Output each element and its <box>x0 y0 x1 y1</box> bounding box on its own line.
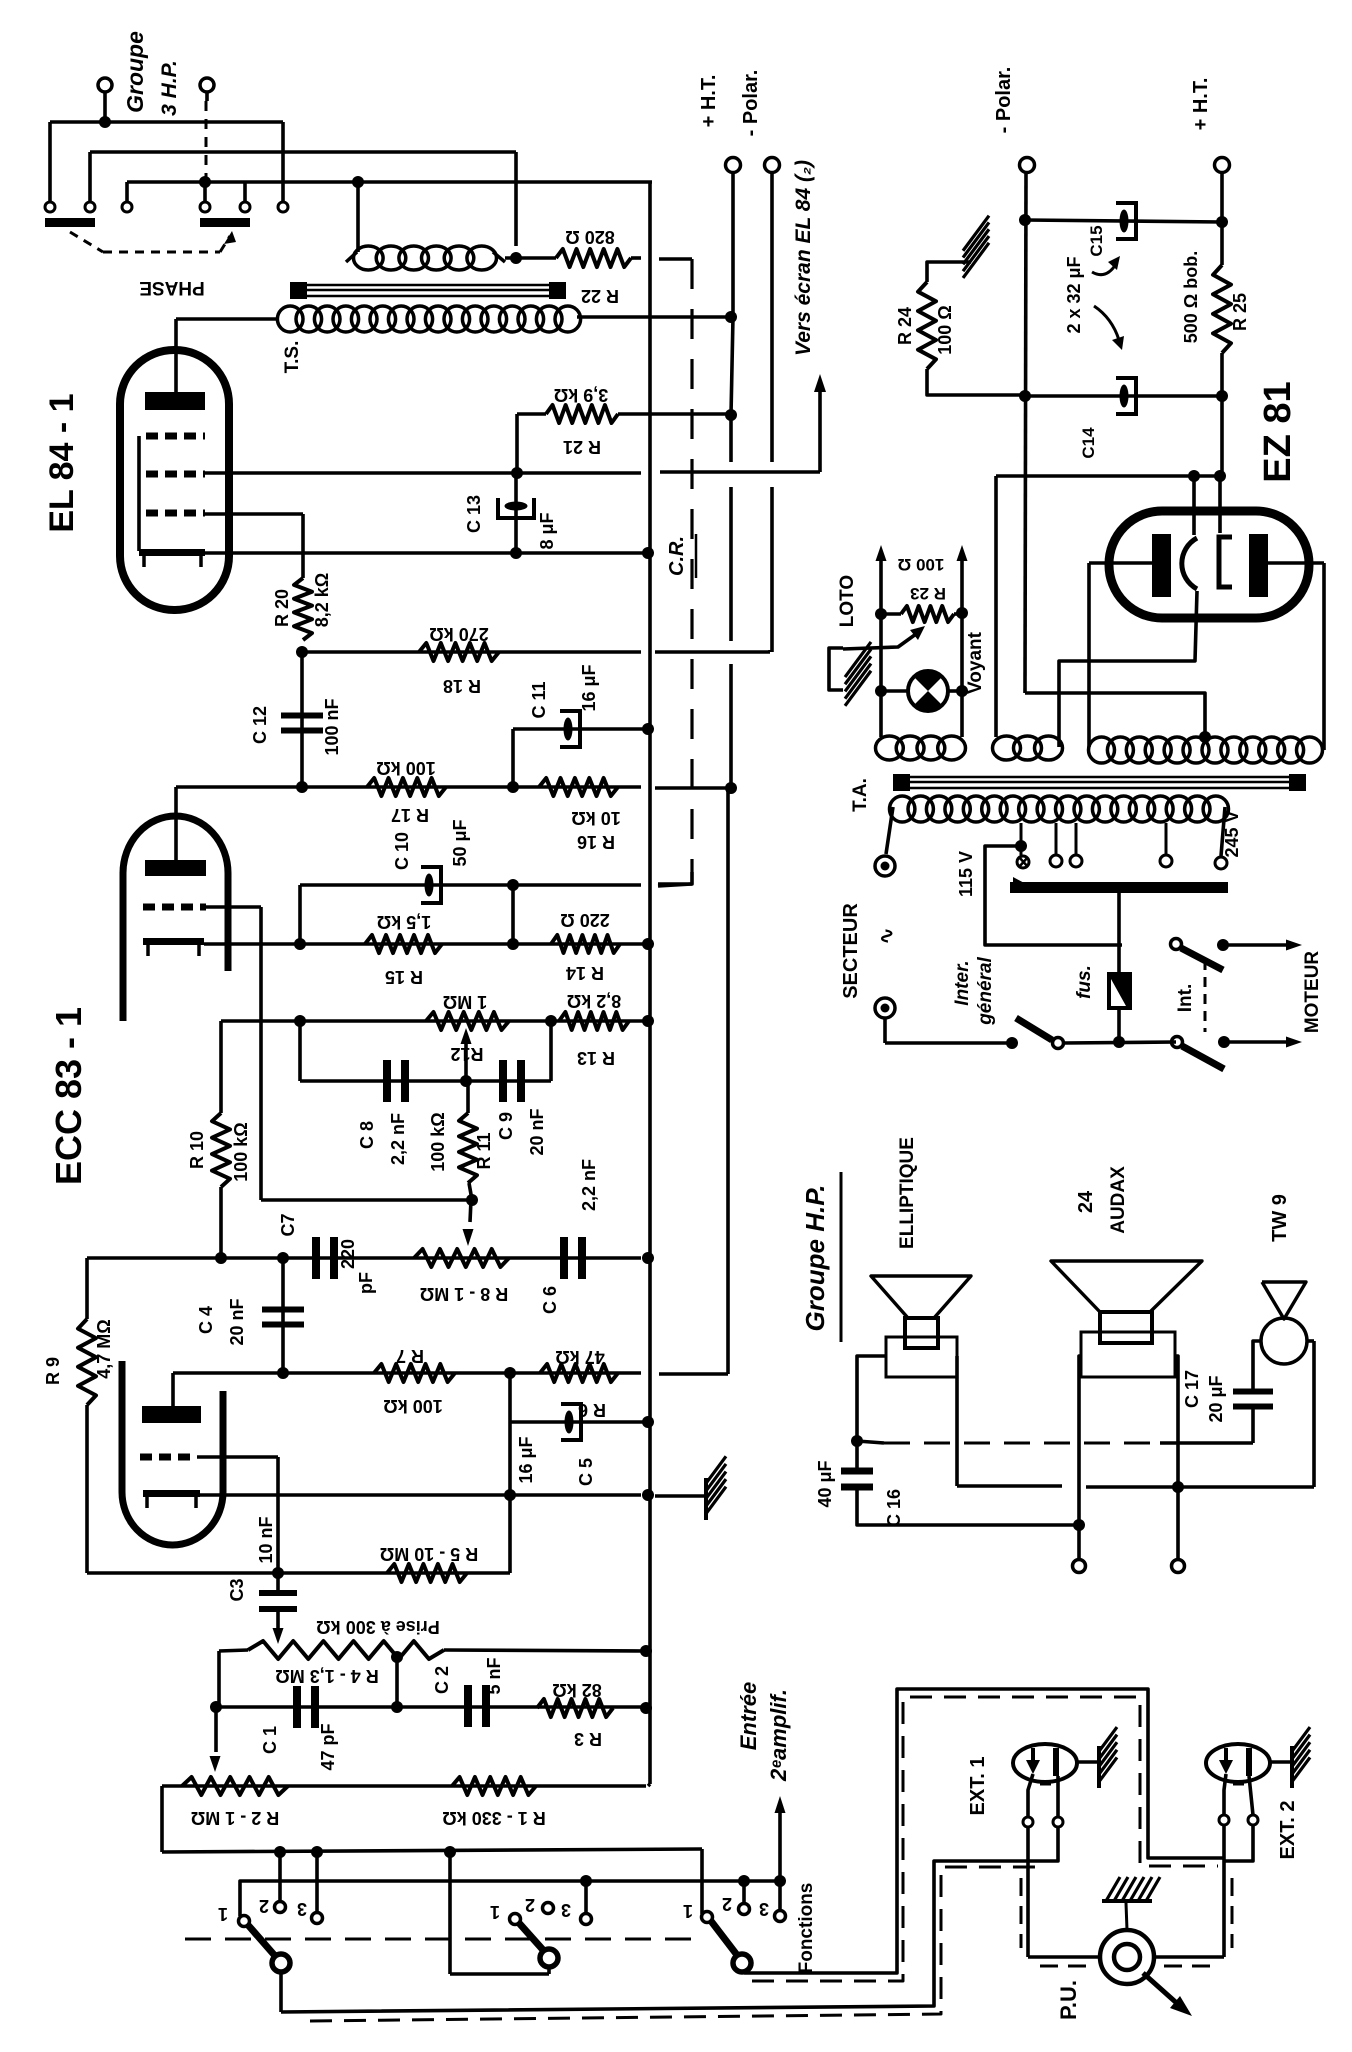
svg-text:100 kΩ: 100 kΩ <box>231 1122 251 1181</box>
tube EZ81 heater <box>1182 538 1197 589</box>
svg-text:100 nF: 100 nF <box>322 698 342 755</box>
svg-text:+ H.T.: + H.T. <box>698 75 720 128</box>
svg-text:général: général <box>975 956 996 1025</box>
node selector bar <box>1010 877 1228 893</box>
svg-text:LOTO: LOTO <box>837 575 858 627</box>
wire cable B <box>281 1861 1040 2012</box>
wire HT vertical <box>728 317 733 792</box>
svg-text:16 μF: 16 μF <box>516 1436 536 1483</box>
wire lever2 out <box>450 1966 549 1974</box>
switch Inter general <box>1016 1018 1064 1049</box>
wire heater line <box>996 476 1220 737</box>
label 2,2 nF C6 <box>579 1159 599 1211</box>
svg-text:220 Ω: 220 Ω <box>560 910 609 930</box>
capacitor C12 <box>281 652 323 787</box>
tube EZ81 cathode <box>1219 537 1232 587</box>
label 8,2 kohm R13 <box>567 991 621 1011</box>
svg-text:R 5 - 10 MΩ: R 5 - 10 MΩ <box>380 1544 478 1564</box>
wire C8 C9 line <box>300 1075 551 1087</box>
label R 5 - 10 Mohm <box>380 1544 478 1564</box>
inductor T.A. heater winding 2 <box>993 736 1063 760</box>
label 2,2 nF C8 <box>388 1113 408 1165</box>
node arrow c15 <box>1092 256 1120 275</box>
label C 13 <box>464 495 484 533</box>
node -Polar right terminal <box>1020 158 1035 694</box>
svg-text:Entrée: Entrée <box>736 1682 761 1750</box>
svg-text:20 nF: 20 nF <box>527 1108 547 1155</box>
resistor R14 <box>551 935 620 953</box>
svg-text:8 μF: 8 μF <box>537 512 557 549</box>
svg-text:R 17: R 17 <box>391 805 429 825</box>
label MOTEUR <box>1302 951 1323 1034</box>
label R12 <box>450 1044 483 1064</box>
label ELLIPTIQUE <box>897 1137 918 1249</box>
speaker ELLIPTIQUE <box>871 1276 971 1377</box>
capacitor C5 <box>510 1373 654 1573</box>
label EXT. 2 <box>1277 1801 1299 1860</box>
capacitor C7 <box>312 1237 338 1279</box>
label C 17 <box>1182 1370 1202 1408</box>
wire R9 top <box>85 1258 89 1319</box>
node g2 contacts <box>510 1903 592 1925</box>
svg-text:2 x 32 μF: 2 x 32 μF <box>1064 256 1084 333</box>
resistor R18 <box>419 643 499 661</box>
wire audax left <box>1073 1356 1086 1573</box>
wire dashed PHASE link <box>70 231 236 252</box>
label LOTO <box>837 575 858 627</box>
wire elliptique left <box>851 1356 886 1470</box>
label C15 <box>1087 225 1106 256</box>
wire R12 wiper <box>461 1028 472 1081</box>
node Vers ecran arrow <box>814 374 826 472</box>
label EL 84 - 1 <box>43 393 81 532</box>
svg-text:R 14: R 14 <box>566 963 604 983</box>
svg-text:5 nF: 5 nF <box>484 1657 504 1694</box>
label C 1 <box>260 1726 280 1754</box>
label digits g3 <box>683 1894 769 1921</box>
capacitor C15 <box>1116 203 1136 239</box>
svg-text:ELLIPTIQUE: ELLIPTIQUE <box>897 1137 918 1249</box>
svg-text:C7: C7 <box>278 1213 298 1236</box>
capacitor C9 <box>499 1060 525 1102</box>
svg-text:R 24: R 24 <box>895 307 915 345</box>
svg-text:1: 1 <box>218 1904 228 1924</box>
connector P.U. <box>1100 1930 1154 1984</box>
svg-text:Inter.: Inter. <box>952 960 973 1005</box>
capacitor C1 <box>293 1686 319 1728</box>
resistor R15 <box>365 935 442 953</box>
svg-text:Prise à 300 kΩ: Prise à 300 kΩ <box>316 1617 440 1637</box>
label 1,5 kohm <box>377 912 431 932</box>
label C7 <box>278 1213 298 1236</box>
label Fonctions <box>796 1883 817 1974</box>
svg-text:Fonctions: Fonctions <box>796 1883 817 1974</box>
label 115 V <box>956 851 976 897</box>
svg-text:10 nF: 10 nF <box>256 1516 276 1563</box>
lamp Voyant <box>881 671 962 711</box>
resistor R21 <box>546 405 618 423</box>
wire EXT1 ring <box>1040 1776 1063 1861</box>
resistor R13 <box>559 1012 629 1030</box>
svg-text:pF: pF <box>356 1272 376 1294</box>
wire grid line right <box>655 650 770 654</box>
svg-text:R 15: R 15 <box>385 967 423 987</box>
svg-text:2,2 nF: 2,2 nF <box>579 1159 599 1211</box>
wire secondary riser <box>356 182 360 252</box>
resistor R24 <box>918 262 1020 395</box>
wire plate line <box>176 781 737 794</box>
label 1 Mohm <box>443 992 487 1012</box>
wire R1 R2 line <box>162 1784 646 1788</box>
tube ECC83b plate <box>142 1373 201 1423</box>
wire C15 line <box>1019 214 1228 228</box>
wire EXT2 tip <box>1219 1774 1229 1957</box>
wire cathode line <box>204 938 654 950</box>
svg-text:R 8 - 1 MΩ: R 8 - 1 MΩ <box>420 1284 508 1304</box>
label 16 uF <box>579 664 599 711</box>
wire heater arrow 2 <box>956 545 968 737</box>
svg-text:R 9: R 9 <box>43 1357 63 1385</box>
svg-text:47 kΩ: 47 kΩ <box>555 1347 604 1367</box>
svg-text:2: 2 <box>722 1894 732 1914</box>
speaker TW9 <box>1261 1282 1307 1364</box>
svg-text:T.A.: T.A. <box>850 778 871 812</box>
svg-text:Groupe H.P.: Groupe H.P. <box>800 1185 830 1332</box>
wire stem g3t2 <box>742 1881 746 1903</box>
wire PU shield dashes <box>1021 1878 1232 1966</box>
wire R25 bottom <box>1216 353 1228 476</box>
label 220 ohm <box>560 910 609 930</box>
svg-text:SECTEUR: SECTEUR <box>840 903 862 999</box>
wire C.R. dashed feedback <box>658 259 692 884</box>
svg-text:2: 2 <box>525 1895 535 1915</box>
svg-text:Vers écran EL 84 (₂): Vers écran EL 84 (₂) <box>792 160 815 356</box>
svg-text:100 kΩ: 100 kΩ <box>376 758 435 778</box>
label 100 kohm R10 <box>231 1122 251 1181</box>
wire gang dashed <box>185 1938 705 1941</box>
potentiometer R8 <box>414 1249 509 1267</box>
label R 10 <box>187 1131 207 1169</box>
label C.R. <box>666 534 696 578</box>
wire plate line 2 <box>173 1367 641 1379</box>
resistor R11 <box>459 1081 477 1200</box>
label C 2 <box>432 1666 452 1694</box>
resistor R1 <box>452 1777 536 1795</box>
wire 115V line <box>985 846 1122 945</box>
wire screen line <box>205 472 820 473</box>
label R 1 - 330 kohm <box>442 1808 545 1828</box>
svg-text:2,2 nF: 2,2 nF <box>388 1113 408 1165</box>
label Groupe H.P. <box>800 1172 841 1342</box>
tube ECC83a plate <box>145 787 206 876</box>
label T.A. <box>850 778 871 812</box>
potentiometer R2 <box>182 1777 288 1795</box>
label R 4 - 1,3 Mohm <box>275 1666 378 1686</box>
svg-text:R 3: R 3 <box>574 1729 602 1749</box>
svg-text:- Polar.: - Polar. <box>993 67 1015 134</box>
ground <box>706 1456 726 1520</box>
node taps <box>1050 823 1172 867</box>
label Prise a 300 kohm <box>316 1617 440 1637</box>
inductor T.S. secondary <box>346 246 505 270</box>
inductor T.A. HV winding <box>1089 737 1323 763</box>
svg-text:500 Ω bob.: 500 Ω bob. <box>1181 251 1201 343</box>
svg-text:100 kΩ: 100 kΩ <box>383 1396 442 1416</box>
wire switch bus 2 <box>240 1875 786 1916</box>
wire R11 wiper <box>463 1200 474 1246</box>
wire C17 to crossover <box>1251 1408 1255 1443</box>
core T.S. <box>290 282 566 299</box>
wire plate to primary <box>176 319 277 392</box>
capacitor C2 <box>464 1685 490 1727</box>
svg-text:PHASE: PHASE <box>139 277 204 298</box>
wire Int gang dashed <box>1204 960 1207 1032</box>
label R 2 - 1 Mohm <box>191 1808 279 1828</box>
label C3 <box>227 1578 247 1601</box>
node +H.T. right terminal <box>1215 158 1230 266</box>
wire cathode line 2 <box>200 1489 654 1501</box>
resistor R6 <box>540 1364 618 1382</box>
node SECTEUR bottom <box>875 998 895 1018</box>
resistor R3 <box>537 1699 613 1717</box>
svg-text:100 kΩ: 100 kΩ <box>428 1112 448 1171</box>
switch lever 1 <box>248 1925 290 1972</box>
label 47 pF <box>318 1723 338 1770</box>
svg-text:16 μF: 16 μF <box>579 664 599 711</box>
tube ECC83a cathode <box>143 938 204 956</box>
label 820 ohm <box>565 227 614 247</box>
label R 14 <box>566 963 604 983</box>
svg-text:P.U.: P.U. <box>1056 1980 1081 2020</box>
inductor T.S. primary <box>277 306 580 332</box>
wire switch bus 1 <box>162 1786 702 1914</box>
svg-text:100 Ω: 100 Ω <box>935 305 955 354</box>
ground LOTO <box>845 642 871 706</box>
label C 16 <box>884 1489 904 1527</box>
node HV center tap <box>1025 693 1211 743</box>
wire grid lower <box>197 1457 284 1579</box>
wire R9 bottom <box>85 1405 89 1573</box>
svg-text:C.R.: C.R. <box>666 536 688 576</box>
svg-text:R 18: R 18 <box>443 676 481 696</box>
node +H.T. terminal <box>726 158 741 318</box>
svg-text:EXT. 1: EXT. 1 <box>967 1757 989 1816</box>
capacitor C3 <box>259 1573 297 1612</box>
wire C1 line <box>210 1701 652 1714</box>
wire cathode to ground <box>655 1494 706 1498</box>
label C14 <box>1079 427 1098 459</box>
wire 115 line 2 <box>1120 943 1124 947</box>
capacitor C6 <box>560 1237 586 1279</box>
potentiometer R4 <box>248 1641 444 1659</box>
wire rail to R1 <box>648 1784 650 1786</box>
wire fuse bottom <box>1113 1008 1125 1048</box>
wire primary right <box>1215 807 1227 869</box>
svg-text:C 2: C 2 <box>432 1666 452 1694</box>
svg-text:fus.: fus. <box>1074 965 1095 999</box>
label 10 kohm <box>571 808 620 828</box>
wire speaker bus C <box>127 180 652 184</box>
wire dashed polarity <box>205 101 208 178</box>
switch lever 2 <box>519 1923 558 1967</box>
switch Int lower <box>1172 1037 1225 1070</box>
label R 24 <box>895 307 915 345</box>
wire R21 line <box>517 412 546 416</box>
wire R2 wiper <box>210 1707 221 1772</box>
wire tone line <box>221 1015 654 1027</box>
tube ECC83a grid <box>143 904 206 911</box>
label R 7 <box>396 1346 424 1366</box>
label 20 uF C17 <box>1206 1375 1226 1422</box>
svg-text:3 H.P.: 3 H.P. <box>158 60 181 116</box>
resistor R23 <box>881 606 962 622</box>
tube EL84 grid3 <box>146 433 205 440</box>
tube EL84 grid1 <box>146 510 205 517</box>
label R 20 <box>272 589 292 627</box>
wire terminal stems <box>50 122 283 202</box>
svg-text:R 22: R 22 <box>581 286 619 306</box>
label 20 nF C4 <box>227 1298 247 1345</box>
label Groupe 3 H.P. <box>122 31 181 116</box>
label PHASE <box>139 277 204 298</box>
wire audax right <box>1172 1356 1185 1573</box>
label 3,9 kohm <box>554 385 608 405</box>
label Int. <box>1175 984 1196 1013</box>
wire R4 left <box>219 1650 248 1707</box>
label 10 nF <box>256 1516 276 1563</box>
label 40 uF <box>815 1460 835 1507</box>
label R 11 <box>474 1132 494 1169</box>
label C 5 <box>576 1458 596 1486</box>
label +H.T. <box>698 75 720 128</box>
svg-text:T.S.: T.S. <box>282 341 303 374</box>
label R8 - 1 Mohm <box>420 1284 508 1304</box>
svg-text:82 kΩ: 82 kΩ <box>552 1680 601 1700</box>
label 2e amplif <box>766 1689 791 1782</box>
switch lever 3 <box>711 1921 751 1972</box>
svg-text:8,2 kΩ: 8,2 kΩ <box>567 991 621 1011</box>
tube EL84 grid2 <box>146 471 205 478</box>
label digits g2 <box>490 1895 571 1922</box>
svg-text:1: 1 <box>490 1902 500 1922</box>
resistor R20 <box>294 578 312 640</box>
svg-text:100 Ω: 100 Ω <box>898 555 945 574</box>
svg-text:1,5 kΩ: 1,5 kΩ <box>377 912 431 932</box>
inductor T.A. heater winding 1 <box>876 736 966 760</box>
label C 9 <box>496 1112 516 1140</box>
wire C14 line <box>1019 390 1222 402</box>
wire R10 bottom <box>219 1187 223 1258</box>
svg-text:ECC 83 - 1: ECC 83 - 1 <box>48 1007 89 1185</box>
wire grid to tone <box>206 907 478 1206</box>
svg-text:R 16: R 16 <box>577 832 615 852</box>
wire plate right line <box>1267 563 1324 750</box>
svg-text:40 μF: 40 μF <box>815 1460 835 1507</box>
wire tw9 left <box>1253 1341 1261 1392</box>
label 100 ohm R23 <box>898 555 945 574</box>
label C 12 <box>250 706 270 744</box>
label R 25 <box>1230 293 1250 331</box>
svg-text:10 kΩ: 10 kΩ <box>571 808 620 828</box>
tube EL84 outline <box>120 350 229 610</box>
svg-text:245 V: 245 V <box>1222 810 1242 857</box>
node arrow c14 <box>1094 306 1124 350</box>
svg-text:C 16: C 16 <box>884 1489 904 1527</box>
label 500 ohm bob <box>1181 251 1201 343</box>
svg-text:2ᵉamplif.: 2ᵉamplif. <box>766 1689 791 1782</box>
node Entree arrow <box>775 1796 786 1881</box>
label Voyant <box>965 631 986 694</box>
tube EZ81 plate left <box>1152 534 1171 597</box>
svg-text:R 1 - 330 kΩ: R 1 - 330 kΩ <box>442 1808 545 1828</box>
svg-text:Int.: Int. <box>1175 984 1196 1013</box>
svg-text:R 7: R 7 <box>396 1346 424 1366</box>
svg-text:3: 3 <box>759 1899 769 1919</box>
wire R22 right <box>631 258 692 259</box>
wire stem g3t3 <box>778 1881 782 1910</box>
svg-text:C 8: C 8 <box>357 1121 377 1149</box>
svg-text:R 11: R 11 <box>474 1132 494 1169</box>
speaker AUDAX <box>1051 1261 1202 1377</box>
wire stem g2t3 <box>584 1881 588 1913</box>
svg-text:C15: C15 <box>1087 225 1106 256</box>
label R 16 <box>577 832 615 852</box>
label AC <box>876 928 898 945</box>
svg-text:R 13: R 13 <box>577 1048 615 1068</box>
label 5 nF <box>484 1657 504 1694</box>
wire R5 line <box>87 1571 510 1575</box>
wire stem g1t2 <box>278 1852 282 1901</box>
svg-text:C3: C3 <box>227 1578 247 1601</box>
wire EXT2 ground <box>1270 1760 1292 1764</box>
svg-text:270 kΩ: 270 kΩ <box>429 624 488 644</box>
svg-text:R 2 - 1 MΩ: R 2 - 1 MΩ <box>191 1808 279 1828</box>
potentiometer R12 <box>426 1012 509 1030</box>
node LOTO bracket <box>829 648 843 690</box>
label 100 kohm R11 <box>428 1112 448 1171</box>
node speaker contacts <box>45 202 288 212</box>
svg-text:+ H.T.: + H.T. <box>1190 78 1212 131</box>
svg-text:C14: C14 <box>1079 427 1098 459</box>
svg-text:1: 1 <box>683 1901 693 1921</box>
svg-text:C 13: C 13 <box>464 495 484 533</box>
tube ECC83 upper outline <box>123 816 228 1021</box>
svg-text:∿: ∿ <box>876 928 898 945</box>
capacitor C10 <box>300 867 692 944</box>
label R 3 <box>574 1729 602 1749</box>
label 4,7 Mohm <box>94 1319 114 1378</box>
wire R6 to HT riser <box>659 788 728 1374</box>
ground PU <box>1102 1877 1160 1930</box>
capacitor C4 <box>262 1258 304 1373</box>
ground EXT1 <box>1099 1727 1117 1788</box>
resistor R25 <box>1213 265 1231 353</box>
label R 17 <box>391 805 429 825</box>
svg-text:C 17: C 17 <box>1182 1370 1202 1408</box>
label C 10 <box>392 832 412 870</box>
label -Polar left <box>740 70 762 137</box>
wire C3 wiper <box>273 1612 284 1644</box>
svg-text:C 10: C 10 <box>392 832 412 870</box>
svg-text:R 10: R 10 <box>187 1131 207 1169</box>
svg-text:MOTEUR: MOTEUR <box>1302 951 1323 1034</box>
label 220 pF <box>338 1239 376 1294</box>
svg-text:115 V: 115 V <box>956 851 976 897</box>
node moteur upper <box>1217 939 1302 951</box>
capacitor C14 <box>1116 378 1136 414</box>
resistor R10 <box>212 1113 230 1187</box>
svg-text:Voyant: Voyant <box>965 631 986 694</box>
